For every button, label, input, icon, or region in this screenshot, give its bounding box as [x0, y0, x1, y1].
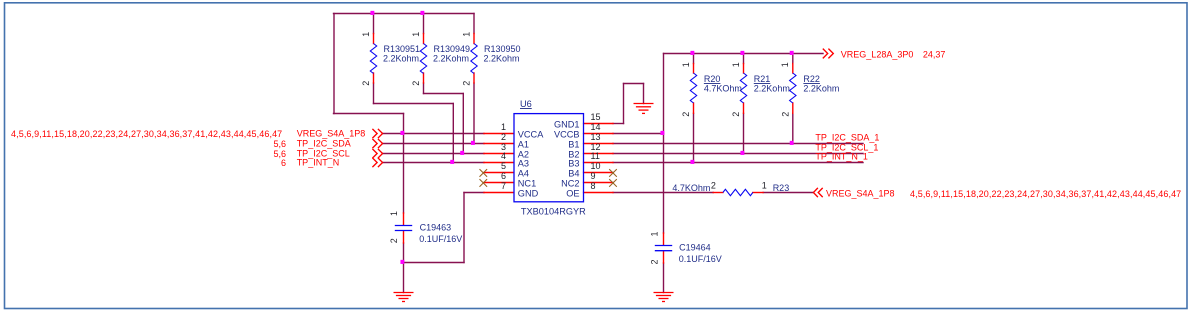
svg-text:1: 1 [501, 122, 506, 132]
svg-text:R130949: R130949 [434, 44, 471, 54]
svg-text:1: 1 [361, 32, 371, 37]
svg-text:9: 9 [591, 171, 596, 181]
svg-text:13: 13 [591, 132, 601, 142]
svg-text:7: 7 [501, 181, 506, 191]
svg-text:2.2Kohm: 2.2Kohm [433, 53, 469, 63]
svg-text:15: 15 [591, 112, 601, 122]
svg-text:C19464: C19464 [679, 242, 711, 252]
svg-text:1: 1 [780, 62, 790, 67]
svg-text:U6: U6 [520, 99, 532, 109]
svg-text:1: 1 [650, 231, 660, 236]
svg-text:0.1UF/16V: 0.1UF/16V [679, 254, 722, 264]
svg-text:2: 2 [650, 259, 660, 264]
svg-text:4.7KOhm: 4.7KOhm [672, 183, 710, 193]
svg-text:5: 5 [501, 161, 506, 171]
svg-text:GND: GND [518, 189, 539, 199]
svg-text:TP_I2C_SDA: TP_I2C_SDA [297, 139, 351, 149]
svg-text:2: 2 [501, 132, 506, 142]
svg-text:11: 11 [591, 151, 600, 161]
svg-text:2: 2 [389, 238, 399, 243]
svg-text:24,37: 24,37 [923, 50, 946, 60]
svg-text:2: 2 [361, 81, 371, 86]
svg-text:NC2: NC2 [561, 179, 579, 189]
svg-text:1: 1 [731, 62, 741, 67]
svg-text:1: 1 [681, 62, 691, 67]
svg-text:A1: A1 [518, 140, 529, 150]
svg-text:1: 1 [461, 32, 471, 37]
svg-text:0.1UF/16V: 0.1UF/16V [419, 234, 462, 244]
svg-text:1: 1 [762, 180, 767, 190]
svg-text:NC1: NC1 [518, 179, 536, 189]
svg-text:A4: A4 [518, 169, 529, 179]
svg-text:VREG_S4A_1P8: VREG_S4A_1P8 [826, 189, 895, 199]
svg-text:6: 6 [281, 158, 286, 168]
svg-text:GND1: GND1 [554, 120, 580, 130]
svg-text:B4: B4 [568, 169, 579, 179]
svg-text:2: 2 [411, 81, 421, 86]
svg-text:TP_INT_N_1: TP_INT_N_1 [815, 152, 868, 162]
svg-text:2.2Kohm: 2.2Kohm [754, 83, 790, 93]
svg-text:10: 10 [591, 161, 601, 171]
svg-text:B3: B3 [568, 159, 579, 169]
svg-text:B1: B1 [568, 140, 579, 150]
svg-text:VCCB: VCCB [554, 130, 580, 140]
svg-text:2: 2 [462, 81, 472, 86]
svg-text:2.2Kohm: 2.2Kohm [383, 53, 419, 63]
svg-text:4.7KOhm: 4.7KOhm [704, 83, 742, 93]
svg-text:4,5,6,9,11,15,18,20,22,23,24,2: 4,5,6,9,11,15,18,20,22,23,24,27,30,34,36… [910, 189, 1181, 199]
svg-text:2: 2 [731, 112, 741, 117]
svg-text:2: 2 [711, 180, 716, 190]
svg-text:4: 4 [501, 151, 506, 161]
svg-text:8: 8 [591, 181, 596, 191]
svg-text:OE: OE [566, 189, 579, 199]
svg-text:14: 14 [591, 122, 601, 132]
svg-text:VREG_S4A_1P8: VREG_S4A_1P8 [297, 129, 366, 139]
svg-text:2.2Kohm: 2.2Kohm [803, 83, 839, 93]
svg-text:2: 2 [681, 112, 691, 117]
svg-text:TXB0104RGYR: TXB0104RGYR [521, 206, 586, 216]
svg-text:TP_I2C_SDA_1: TP_I2C_SDA_1 [815, 133, 879, 143]
svg-text:4,5,6,9,11,15,18,20,22,23,24,2: 4,5,6,9,11,15,18,20,22,23,24,27,30,34,36… [11, 129, 282, 139]
svg-text:2: 2 [781, 112, 791, 117]
svg-text:R23: R23 [773, 183, 790, 193]
svg-text:6: 6 [501, 171, 506, 181]
svg-text:2.2Kohm: 2.2Kohm [484, 53, 520, 63]
svg-text:R130950: R130950 [484, 44, 521, 54]
svg-text:TP_INT_N: TP_INT_N [297, 158, 340, 168]
svg-text:1: 1 [411, 32, 421, 37]
svg-text:R130951: R130951 [384, 44, 421, 54]
svg-text:1: 1 [389, 211, 399, 216]
svg-text:C19463: C19463 [420, 222, 452, 232]
svg-text:A3: A3 [518, 159, 529, 169]
svg-text:VCCA: VCCA [518, 130, 544, 140]
svg-text:VREG_L28A_3P0: VREG_L28A_3P0 [841, 50, 914, 60]
svg-text:5,6: 5,6 [273, 139, 286, 149]
